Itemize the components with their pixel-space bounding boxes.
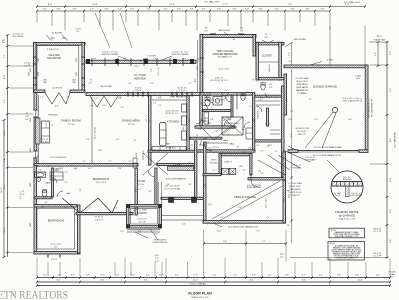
svg-text:12'-8" CLG HGT: 12'-8" CLG HGT [95,127,97,139]
svg-text:12' CLG: 12' CLG [138,184,145,186]
svg-text:2'-8": 2'-8" [88,83,92,85]
svg-text:BO: BO [233,39,236,41]
svg-text:8'-0": 8'-0" [346,68,350,70]
bath complex extra fixtures [196,90,255,149]
svg-text:5'-0": 5'-0" [214,131,218,133]
svg-text:2" MIN TYP: 2" MIN TYP [290,195,301,197]
svg-text:DOOR: DOOR [335,195,341,197]
svg-text:BARRIER ON: BARRIER ON [296,89,308,92]
svg-text:20'-0" DOUBLE GARAGE DOOR: 20'-0" DOUBLE GARAGE DOOR [313,154,342,157]
double garage right wall note [369,97,374,118]
svg-text:SYP LINTEL: SYP LINTEL [13,36,24,38]
svg-text:SUPPORT ON BRK: SUPPORT ON BRK [172,54,190,56]
svg-text:4'-0": 4'-0" [90,8,94,10]
svg-text:2'-8": 2'-8" [290,111,294,113]
scatter dims rotated [30,58,363,227]
svg-text:3'-4": 3'-4" [288,61,292,63]
svg-text:HALL: HALL [66,192,72,195]
svg-text:2'-2": 2'-2" [233,275,237,277]
svg-text:3'-0": 3'-0" [56,8,60,10]
svg-text:2'-8": 2'-8" [198,129,202,131]
svg-text:2'-4": 2'-4" [207,142,210,144]
svg-text:3'-8": 3'-8" [290,8,294,10]
svg-text:9'1: 9'1 [51,36,55,40]
svg-text:HALL: HALL [223,139,229,142]
bottom mid dims [155,241,287,263]
svg-text:3'-4": 3'-4" [212,275,216,277]
svg-text:2'-8": 2'-8" [44,202,48,204]
svg-text:2'-6": 2'-6" [64,172,68,174]
svg-text:8'-8": 8'-8" [390,138,392,142]
svg-text:6'1: 6'1 [37,166,39,168]
veranda label [134,66,160,81]
single garage walls [203,142,286,223]
svg-text:10": 10" [134,140,137,142]
svg-text:2'-8": 2'-8" [80,188,82,192]
misc annotations east [211,100,316,169]
svg-text:BM IN WALL ABV: BM IN WALL ABV [247,186,262,189]
svg-text:1" CROWN: 1" CROWN [146,56,156,58]
svg-text:3050: 3050 [29,62,31,66]
svg-text:REF: REF [183,127,185,130]
svg-text:3'-0": 3'-0" [146,165,150,167]
veranda door swings [90,96,118,107]
svg-text:2'-8": 2'-8" [355,275,359,277]
sun room walls [34,43,86,93]
svg-text:KITCHEN: KITCHEN [167,120,179,124]
svg-text:FLOOR PLAN: FLOOR PLAN [188,292,212,296]
right small notes [373,229,382,258]
svg-text:SLOPE TO DR: SLOPE TO DR [289,192,302,194]
svg-text:4'1 5'-8" 4'1: 4'1 5'-8" 4'1 [137,219,146,221]
svg-text:BEDROOM #3: BEDROOM #3 [93,178,110,181]
svg-text:MASTER BEDROOM: MASTER BEDROOM [213,52,238,56]
veranda beam notes [102,51,190,61]
svg-text:4'-0": 4'-0" [88,168,92,170]
svg-text:6'-0": 6'-0" [269,87,273,89]
svg-text:3'-4": 3'-4" [117,8,121,10]
garage entry door [251,173,264,187]
svg-text:2'-8": 2'-8" [204,31,208,33]
dim bottom row1 [36,275,391,279]
svg-text:3050: 3050 [76,58,78,62]
svg-text:W/ 6x6 10/10: W/ 6x6 10/10 [289,186,300,188]
svg-text:2'-2": 2'-2" [268,275,272,277]
svg-text:15'-0": 15'-0" [4,227,6,233]
svg-text:2'-8": 2'-8" [189,8,193,10]
svg-text:FOYER: FOYER [137,181,145,183]
svg-text:14'-8": 14'-8" [169,4,175,6]
svg-text:10'-0": 10'-0" [280,254,285,256]
svg-text:MTL CLAD DOOR: MTL CLAD DOOR [343,100,359,103]
svg-text:3050: 3050 [197,66,199,70]
svg-text:SUPPORT BRK: SUPPORT BRK [350,195,363,197]
svg-text:3050: 3050 [30,148,32,152]
svg-text:11'-0": 11'-0" [193,280,198,282]
svg-text:16'-0" GAR DR HD: 16'-0" GAR DR HD [394,131,397,148]
svg-text:WD. BEAM @ 12": WD. BEAM @ 12" [218,55,233,58]
svg-text:5'-4": 5'-4" [4,158,6,162]
right extension lines [290,26,388,258]
svg-text:5'-0": 5'-0" [208,148,212,150]
svg-text:2'-6": 2'-6" [256,145,260,147]
svg-text:4-2 1/4 x 12 SYP BM: 4-2 1/4 x 12 SYP BM [164,188,180,190]
svg-text:4' WALL 12'-0": 4' WALL 12'-0" [47,48,59,51]
svg-text:4'-0": 4'-0" [94,98,98,100]
svg-text:5'-4": 5'-4" [146,8,150,10]
svg-text:20'-4": 20'-4" [208,204,212,206]
svg-text:9'-8": 9'-8" [302,280,306,282]
svg-text:3'-4": 3'-4" [319,275,323,277]
svg-text:2'-8": 2'-8" [85,275,89,277]
svg-text:3'1 RDG BM: 3'1 RDG BM [52,33,63,35]
svg-text:3'-0": 3'-0" [245,8,249,10]
svg-text:9'-8": 9'-8" [308,99,312,101]
svg-text:8'-0": 8'-0" [48,4,53,6]
kitchen label [165,111,179,124]
svg-text:6'-0": 6'-0" [225,90,228,92]
svg-text:2'1: 2'1 [47,166,49,168]
svg-text:4'-4": 4'-4" [64,182,68,184]
svg-text:3050: 3050 [30,223,32,227]
svg-text:3'-4": 3'-4" [104,8,108,10]
svg-text:3'-0" POCKET DR: 3'-0" POCKET DR [211,100,225,102]
svg-text:5'1 5'1: 5'1 5'1 [75,28,80,30]
svg-text:MUD: MUD [204,118,209,120]
svg-text:8'-0": 8'-0" [4,75,6,79]
kitchen island [160,123,167,154]
svg-text:SUPPORT ON BRK: SUPPORT ON BRK [102,54,120,56]
svg-text:8'-0": 8'-0" [281,88,283,92]
bedroom2 [37,208,75,249]
svg-text:22'-4": 22'-4" [314,119,318,121]
svg-text:4'-4": 4'-4" [4,54,6,58]
svg-text:2'-2": 2'-2" [269,84,273,86]
svg-text:4'-6": 4'-6" [217,8,221,10]
svg-text:SYP BM ABV: SYP BM ABV [305,158,317,161]
svg-text:2'-8" x3: 2'-8" x3 [179,90,185,92]
svg-text:4" GRAVEL: 4" GRAVEL [297,92,307,95]
svg-text:9'-0": 9'-0" [204,183,206,187]
svg-text:FIREPLACE: FIREPLACE [48,114,58,117]
svg-text:8'-4": 8'-4" [66,97,70,99]
svg-text:TMP: TMP [43,82,47,84]
svg-text:7/16 OSB WRAP TYP: 7/16 OSB WRAP TYP [371,98,374,117]
svg-text:ACCESS: ACCESS [210,161,218,164]
svg-text:3'-0": 3'-0" [242,98,246,100]
svg-text:DOUBLE GARAGE: DOUBLE GARAGE [313,85,337,89]
svg-text:SYP BM ABV: SYP BM ABV [291,166,303,169]
svg-text:BRK SOLDIER: BRK SOLDIER [294,39,307,41]
svg-text:2'-8": 2'-8" [240,31,244,33]
svg-text:8'-0": 8'-0" [345,4,350,6]
svg-text:10'-0": 10'-0" [195,77,197,82]
svg-text:3050: 3050 [38,72,40,76]
svg-text:3'-4": 3'-4" [376,275,380,277]
svg-text:10'-0": 10'-0" [348,119,352,121]
veranda south wall [86,86,200,100]
svg-text:SHELVES: SHELVES [269,63,271,72]
svg-text:SEE DETAIL ON SHEET 5 TYP.: SEE DETAIL ON SHEET 5 TYP. [335,235,359,238]
closet [256,42,293,243]
svg-text:5'-0": 5'-0" [260,151,264,153]
svg-text:7'-2": 7'-2" [256,230,260,232]
svg-text:4'-4": 4'-4" [42,8,46,10]
svg-text:9'-8": 9'-8" [197,134,199,137]
note box 1 [329,228,365,238]
svg-text:HALL: HALL [229,143,235,146]
svg-text:6'-0": 6'-0" [390,178,392,182]
svg-text:2" BRK: 2" BRK [327,60,334,62]
svg-text:CLG JST @ 16" O.C.: CLG JST @ 16" O.C. [210,80,228,82]
svg-text:MIN. TYP.: MIN. TYP. [298,134,307,136]
walk in closet [252,93,284,150]
svg-text:3'1: 3'1 [265,34,268,36]
family dining dims [40,106,137,160]
svg-text:P-3: P-3 [391,277,394,279]
svg-text:17'-2": 17'-2" [222,4,228,6]
svg-text:13'-0": 13'-0" [4,184,6,190]
svg-text:V 84'-0" OVERALL: V 84'-0" OVERALL [190,282,208,285]
foyer niche [133,151,155,178]
svg-text:4'-0": 4'-0" [76,31,80,33]
watermark [0,290,68,300]
bedroom area dims [37,166,122,222]
svg-text:3'-0": 3'-0" [41,207,45,209]
svg-text:4'-4": 4'-4" [280,257,284,259]
svg-text:16'-8": 16'-8" [135,66,140,68]
svg-text:6'-8": 6'-8" [136,188,138,192]
svg-text:2'-8": 2'-8" [35,156,39,158]
wall height note top right [344,1,361,4]
upper hall near utility [204,139,252,151]
svg-text:6'-0": 6'-0" [154,234,158,236]
svg-text:3'-8": 3'-8" [305,8,309,10]
svg-text:2'-8": 2'-8" [237,147,240,149]
kitchen counters [152,96,189,151]
utility room [219,154,252,175]
svg-text:4'-0": 4'-0" [55,106,59,108]
svg-text:13'-4": 13'-4" [149,118,151,122]
master bedroom west window [197,58,204,72]
svg-text:SHINGLES: SHINGLES [342,179,352,181]
svg-text:MASTER BATH: MASTER BATH [226,122,239,125]
svg-text:B.O.: B.O. [155,261,159,263]
framing detail circle [327,160,363,203]
svg-text:4'-0": 4'-0" [375,52,377,56]
dim bottom overall [36,282,391,287]
svg-text:W.C.: W.C. [246,92,250,94]
svg-text:5 1/4" CROWN MLD: 5 1/4" CROWN MLD [50,157,67,159]
svg-text:@ GARAGE: @ GARAGE [339,214,355,218]
svg-text:7'-4": 7'-4" [288,4,293,6]
svg-text:10'-0": 10'-0" [217,230,222,232]
svg-text:3'-4": 3'-4" [227,134,230,136]
svg-text:6'-8": 6'-8" [210,119,214,121]
svg-text:2'-2": 2'-2" [71,275,75,277]
svg-text:BRK SOLDIER: BRK SOLDIER [100,86,112,88]
svg-text:3'-6": 3'-6" [177,8,181,10]
svg-text:3'-4": 3'-4" [102,105,106,107]
svg-text:2'-0": 2'-0" [128,161,132,163]
master bath fixtures [204,97,222,126]
svg-text:ATTIC: ATTIC [211,159,217,162]
svg-text:CLOSET: CLOSET [262,54,273,58]
svg-text:TO DOOR 2": TO DOOR 2" [296,131,307,133]
svg-text:3'1 3'1: 3'1 3'1 [135,87,142,89]
svg-text:4" BRK ROWLOCK: 4" BRK ROWLOCK [153,242,169,244]
foyer [137,150,196,207]
svg-text:9'1: 9'1 [70,166,72,168]
svg-text:6'-0" FR DR: 6'-0" FR DR [52,88,62,90]
sun room windows [29,57,86,85]
svg-text:SUN ROOM: SUN ROOM [47,57,61,60]
bath2 [34,166,78,199]
scatter dims [35,58,352,219]
svg-text:SHELVES: SHELVES [258,110,260,119]
svg-text:7'-2": 7'-2" [155,258,159,260]
svg-text:3'-0": 3'-0" [274,151,278,153]
svg-text:2'-8": 2'-8" [38,170,42,172]
svg-text:11'-4": 11'-4" [357,280,362,282]
svg-text:12'-0": 12'-0" [198,58,200,62]
master bedroom label [210,50,237,82]
svg-text:SCALE: 1/4" = 1'-0": SCALE: 1/4" = 1'-0" [191,296,209,299]
svg-text:2'-8" 4'-0": 2'-8" 4'-0" [95,219,103,221]
svg-text:2'-6": 2'-6" [58,168,62,170]
svg-text:1'-4": 1'-4" [248,106,252,108]
svg-text:3'-0": 3'-0" [118,97,122,99]
svg-text:1'-8": 1'-8" [120,107,124,109]
svg-text:3'-4": 3'-4" [150,83,154,85]
svg-text:O.C. TYP: O.C. TYP [373,231,382,233]
master bedroom walls [198,35,256,93]
kitchen small dims [146,96,194,150]
svg-text:1'-4": 1'-4" [173,94,177,96]
framing detail caption [335,210,359,221]
svg-text:2'-8": 2'-8" [158,97,162,99]
svg-text:DINING AREA: DINING AREA [122,119,140,123]
plate height note [374,36,387,41]
right edge vertical note [394,131,397,148]
svg-text:6'-0": 6'-0" [128,83,132,85]
svg-text:PORCH: PORCH [139,212,148,215]
svg-text:3'-4": 3'-4" [201,8,205,10]
svg-text:3050: 3050 [30,183,32,187]
svg-text:2'-8": 2'-8" [248,148,252,150]
svg-text:3'-4": 3'-4" [82,161,86,163]
east interior wall [281,86,284,177]
svg-text:3'-4": 3'-4" [175,275,179,277]
svg-text:JST @ 16" O.C.: JST @ 16" O.C. [165,113,179,115]
double garage column and leaders [305,98,360,148]
svg-text:2'-8": 2'-8" [91,78,93,82]
svg-text:2'-2": 2'-2" [301,275,305,277]
title floor plan [188,292,212,300]
scullery pantry [143,141,203,205]
svg-text:2'-8": 2'-8" [25,116,29,118]
svg-text:4'-0": 4'-0" [123,58,127,60]
porch steps posts [120,198,206,236]
svg-text:9'1: 9'1 [62,36,66,40]
veranda beam [86,58,196,66]
svg-text:FR: FR [287,225,290,227]
svg-text:3'-4": 3'-4" [232,8,236,10]
bedroom3 [76,168,137,215]
single garage notes [210,155,302,227]
svg-text:4-2 1/4 x 14 SYP BEAM IN WALL: 4-2 1/4 x 14 SYP BEAM IN WALL [314,146,342,149]
hall and door [199,138,235,149]
svg-text:12' CLG: 12' CLG [128,124,135,126]
svg-text:2'-8": 2'-8" [21,194,25,196]
svg-text:2'-2": 2'-2" [100,275,104,277]
double garage brick notes [310,60,362,81]
svg-text:3'1: 3'1 [241,28,245,30]
svg-text:2'-0": 2'-0" [4,39,6,43]
svg-text:1'-6": 1'-6" [288,119,292,121]
svg-text:3'1: 3'1 [26,113,28,115]
single garage label [203,174,283,233]
svg-text:3'-0": 3'-0" [118,168,122,170]
svg-text:24'-4": 24'-4" [1,187,3,193]
svg-text:16'-0": 16'-0" [155,255,160,257]
water closet [237,83,273,110]
svg-text:10": 10" [51,125,54,127]
svg-text:11'-6" x 15'-6": 11'-6" x 15'-6" [219,69,230,71]
svg-text:7'-2": 7'-2" [262,241,266,243]
svg-text:W/ 6x6 10/10: W/ 6x6 10/10 [296,81,307,83]
svg-text:8'-4": 8'-4" [100,280,104,282]
svg-text:2'-8": 2'-8" [264,37,268,39]
svg-text:21'-4" x 12'-0": 21'-4" x 12'-0" [266,197,268,208]
svg-text:2'-2": 2'-2" [146,275,150,277]
svg-text:WIRE MESH: WIRE MESH [290,189,302,191]
svg-text:5'-0": 5'-0" [138,189,142,191]
svg-text:BRK SOLDIER: BRK SOLDIER [218,30,230,32]
svg-text:4'-0": 4'-0" [183,58,187,60]
svg-text:12' CLG: 12' CLG [68,124,75,126]
svg-text:VERANDA: VERANDA [134,77,146,80]
svg-text:PLATE HGT: PLATE HGT [374,39,387,42]
bedroom block exterior [34,164,138,255]
svg-text:TMP: TMP [72,82,76,84]
svg-text:2-1/2 x 12: 2-1/2 x 12 [46,121,48,128]
svg-text:3'-8": 3'-8" [320,8,324,10]
svg-text:MTL: MTL [3,39,5,43]
misc annotations center [91,68,197,107]
svg-text:4'-6": 4'-6" [64,207,68,209]
svg-text:3'-4": 3'-4" [42,173,46,175]
svg-text:NOTE:: NOTE: [330,243,336,245]
svg-text:3'-0": 3'-0" [220,217,224,219]
svg-text:3050: 3050 [38,58,40,62]
svg-text:2'-0": 2'-0" [158,105,162,107]
svg-text:4'-4": 4'-4" [274,8,278,10]
svg-text:4050: 4050 [30,118,32,122]
svg-text:OVER VAPOR: OVER VAPOR [296,86,309,89]
svg-text:3'-0": 3'-0" [130,8,134,10]
svg-text:5'-4": 5'-4" [390,209,392,213]
svg-text:CROWN MLD: CROWN MLD [165,148,176,150]
svg-text:1'-8": 1'-8" [118,98,122,100]
svg-text:2'-2": 2'-2" [194,275,198,277]
svg-text:4'-0": 4'-0" [320,68,324,70]
svg-text:4'-8": 4'-8" [72,8,76,10]
svg-text:2'-8" 2'-8": 2'-8" 2'-8" [134,90,142,92]
bedroom2 windows [48,255,60,261]
svg-text:3050: 3050 [30,68,32,72]
svg-text:5'-0": 5'-0" [230,173,234,175]
